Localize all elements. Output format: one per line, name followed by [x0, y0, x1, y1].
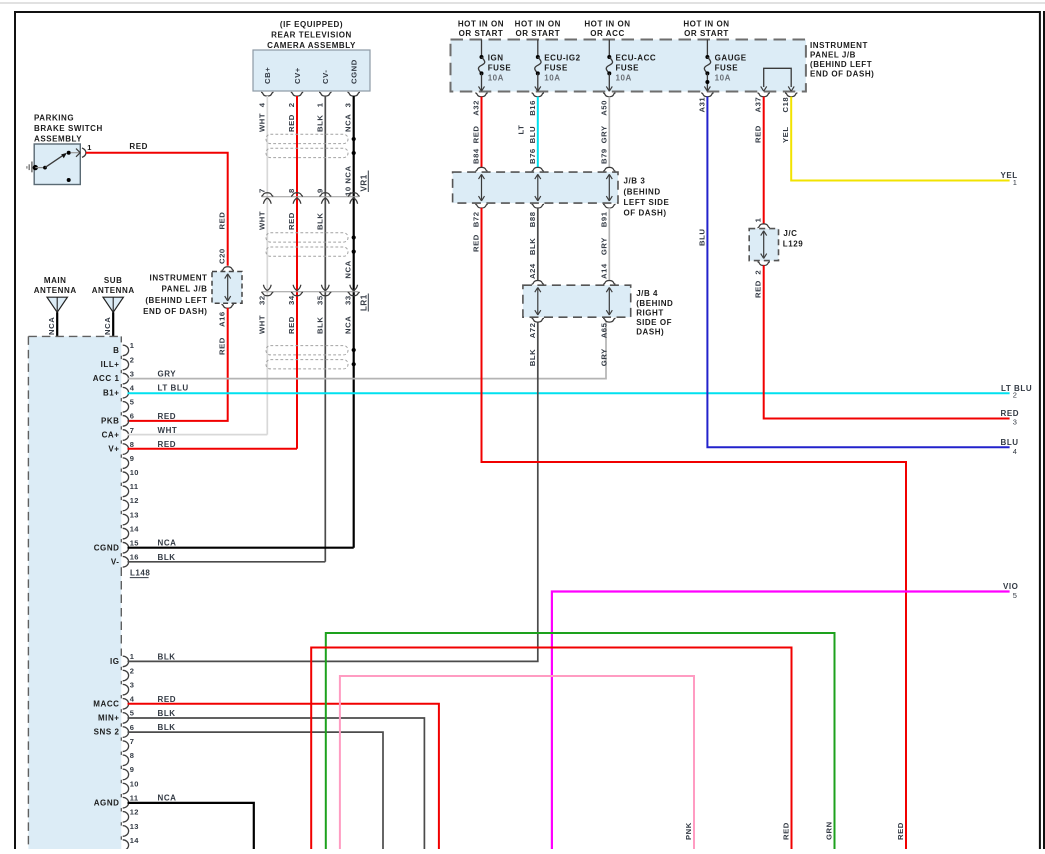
svg-text:HOT IN ON: HOT IN ON — [515, 19, 561, 28]
svg-text:ANTENNA: ANTENNA — [34, 286, 77, 295]
svg-text:A14: A14 — [599, 263, 608, 279]
svg-text:GAUGE: GAUGE — [715, 53, 747, 62]
label 35 — [315, 295, 324, 305]
svg-text:4: 4 — [130, 383, 135, 392]
svg-text:CA+: CA+ — [102, 431, 120, 440]
svg-text:BLK: BLK — [315, 213, 324, 230]
shield tap dots 1 — [352, 137, 356, 155]
svg-text:A37: A37 — [754, 97, 763, 113]
svg-text:RED: RED — [218, 337, 227, 355]
svg-text:OR START: OR START — [459, 29, 504, 38]
fuse GAUGE — [704, 40, 710, 92]
svg-text:CV+: CV+ — [293, 67, 302, 84]
svg-text:WHT: WHT — [257, 211, 266, 230]
label C20 — [218, 248, 227, 264]
label A50 — [599, 100, 608, 116]
label BLU a31 — [697, 229, 706, 246]
label seg3 wht — [257, 315, 266, 334]
wire label GRY pin 3 — [158, 370, 177, 379]
svg-text:3: 3 — [130, 369, 134, 378]
svg-text:12: 12 — [130, 808, 139, 817]
svg-text:SUB: SUB — [104, 276, 123, 285]
label net YEL — [1001, 171, 1018, 180]
pin label IG — [110, 657, 120, 666]
svg-text:3: 3 — [1013, 418, 1018, 427]
svg-text:BRAKE SWITCH: BRAKE SWITCH — [34, 124, 103, 133]
svg-text:A24: A24 — [528, 263, 537, 279]
svg-text:SIDE OF: SIDE OF — [636, 318, 672, 327]
ground chassis symbol — [27, 162, 32, 173]
svg-text:35: 35 — [315, 295, 324, 305]
wire BLK camera CV- — [324, 96, 326, 562]
label A16 — [218, 311, 227, 327]
svg-text:1: 1 — [315, 102, 324, 107]
wire main antenna NCA — [56, 312, 58, 337]
svg-text:VIO: VIO — [1003, 582, 1018, 591]
pin label CA+ — [102, 431, 120, 440]
label A24 — [528, 263, 537, 279]
svg-text:A50: A50 — [599, 100, 608, 116]
svg-text:SNS 2: SNS 2 — [94, 728, 120, 737]
svg-text:MACC: MACC — [93, 699, 119, 708]
svg-text:RED: RED — [754, 280, 763, 298]
svg-text:10: 10 — [130, 468, 139, 477]
svg-text:V+: V+ — [108, 445, 119, 454]
svg-text:RED: RED — [472, 126, 481, 144]
label pin 1 parking — [87, 143, 92, 152]
shield oval pair 2 — [266, 233, 348, 256]
svg-text:11: 11 — [130, 482, 139, 491]
svg-text:BLK: BLK — [315, 115, 324, 132]
svg-text:8: 8 — [130, 751, 134, 760]
label 9 — [315, 188, 324, 193]
svg-text:14: 14 — [130, 524, 139, 533]
svg-text:6: 6 — [130, 412, 134, 421]
pin label MIN+ — [98, 714, 120, 723]
wire GRN loop — [326, 633, 835, 849]
label seg2 blk — [315, 213, 324, 230]
svg-text:PKB: PKB — [101, 416, 120, 425]
wire MACC RED — [128, 704, 439, 849]
radio connector edge segments — [120, 345, 122, 850]
svg-text:GRN: GRN — [825, 821, 834, 840]
svg-text:1: 1 — [130, 341, 134, 350]
svg-text:ASSEMBLY: ASSEMBLY — [34, 134, 82, 143]
svg-text:3: 3 — [344, 102, 353, 107]
label main antenna — [34, 276, 77, 295]
label 32 — [257, 295, 266, 305]
svg-text:B84: B84 — [472, 148, 481, 164]
wire label NCA pin 15 — [158, 539, 177, 548]
svg-text:BLK: BLK — [158, 553, 176, 562]
svg-text:WHT: WHT — [158, 426, 178, 435]
svg-text:FUSE: FUSE — [616, 64, 640, 73]
label GRY b91 — [599, 237, 608, 255]
label parking brake switch assembly — [34, 113, 103, 143]
svg-text:DASH): DASH) — [636, 328, 664, 337]
svg-text:2: 2 — [287, 102, 296, 107]
junction block 4 arrows — [535, 287, 613, 315]
shield oval pair 3 — [266, 346, 348, 369]
label GRN bottom — [825, 821, 834, 840]
svg-text:PANEL J/B: PANEL J/B — [810, 51, 856, 60]
svg-text:HOT IN ON: HOT IN ON — [683, 19, 729, 28]
connector A16 cup — [222, 304, 234, 308]
label RED bottom right — [896, 822, 905, 840]
svg-text:V-: V- — [111, 557, 120, 566]
wire ECU-ACC GRY to J/B3 — [608, 97, 610, 167]
svg-text:RED: RED — [158, 695, 177, 704]
label hot in on 537.8 — [515, 19, 561, 37]
label 1 j/c — [754, 217, 763, 222]
label sub antenna — [92, 276, 135, 295]
label seg2 red — [287, 212, 296, 230]
svg-text:CV-: CV- — [321, 70, 330, 84]
svg-text:B76: B76 — [528, 148, 537, 164]
svg-text:PANEL J/B: PANEL J/B — [162, 285, 208, 294]
svg-text:C18: C18 — [781, 97, 790, 113]
junction connector J/C L129 box — [749, 229, 778, 261]
svg-text:B91: B91 — [599, 211, 608, 227]
label net RED — [1001, 409, 1020, 418]
svg-text:3: 3 — [130, 680, 134, 689]
svg-text:FUSE: FUSE — [488, 64, 512, 73]
label L148 — [130, 569, 151, 578]
svg-text:2: 2 — [130, 666, 134, 675]
label B91 — [599, 211, 608, 227]
label A31 — [697, 97, 706, 113]
svg-text:12: 12 — [130, 496, 139, 505]
svg-text:OR START: OR START — [515, 29, 560, 38]
label RED a32 — [472, 126, 481, 144]
label RED b72 — [472, 234, 481, 252]
label GRY a50 — [599, 125, 608, 143]
instrument panel J/B C20 box — [212, 272, 242, 304]
svg-text:AGND: AGND — [94, 798, 120, 807]
switch inner link — [35, 167, 45, 169]
svg-text:8: 8 — [130, 440, 134, 449]
net number 2 — [1013, 390, 1018, 399]
svg-text:11: 11 — [130, 794, 139, 803]
shield oval pair 1 — [266, 134, 348, 157]
svg-text:16: 16 — [130, 553, 139, 562]
parking brake switch S1 box — [34, 144, 80, 185]
svg-text:J/C: J/C — [783, 229, 797, 238]
wire B91 GRY to J/B4 — [608, 208, 610, 281]
svg-text:GRY: GRY — [599, 348, 608, 366]
wire label BLK lower pin 5 — [158, 709, 176, 718]
wire label RED pin 6 — [158, 412, 177, 421]
svg-text:7: 7 — [257, 188, 266, 193]
pin CV+ — [293, 67, 302, 84]
wire MIN+ BLK — [128, 718, 425, 849]
svg-text:CGND: CGND — [350, 59, 359, 84]
svg-text:RED: RED — [287, 316, 296, 334]
svg-text:ECU-ACC: ECU-ACC — [616, 53, 657, 62]
label VR1 — [360, 171, 369, 193]
label 7 — [257, 188, 266, 193]
label BLK a72 — [528, 349, 537, 366]
svg-text:NCA: NCA — [158, 794, 177, 803]
svg-text:OF DASH): OF DASH) — [624, 209, 667, 218]
label RED below A16 — [218, 337, 227, 355]
svg-text:(BEHIND LEFT: (BEHIND LEFT — [810, 60, 872, 69]
junction connector J/C cap — [758, 224, 770, 228]
label A32 — [472, 100, 481, 116]
label B16 — [528, 100, 537, 116]
wire A16 RED to PKB — [128, 308, 228, 421]
svg-text:14: 14 — [130, 836, 139, 845]
svg-text:RED: RED — [218, 212, 227, 230]
svg-text:PNK: PNK — [684, 822, 693, 840]
switch pin 1 connector — [76, 148, 86, 157]
label J/C L129 — [783, 229, 803, 249]
svg-text:(BEHIND LEFT: (BEHIND LEFT — [145, 296, 207, 305]
label A72 — [528, 323, 537, 339]
label 2 j/c — [754, 270, 763, 275]
fuse ECU-IG2 — [535, 40, 541, 92]
svg-text:1: 1 — [754, 217, 763, 222]
wire IGN RED to J/B3 — [481, 97, 483, 167]
junction connector J/C cup — [758, 262, 770, 266]
svg-text:C20: C20 — [218, 248, 227, 264]
svg-text:A72: A72 — [528, 323, 537, 339]
label 33 — [344, 295, 353, 305]
label 34 — [287, 295, 296, 305]
svg-text:GRY: GRY — [158, 370, 177, 379]
label A14 — [599, 263, 608, 279]
svg-text:L148: L148 — [130, 569, 150, 578]
svg-text:10A: 10A — [715, 74, 731, 83]
svg-text:LR1: LR1 — [360, 294, 369, 311]
svg-text:8: 8 — [287, 188, 296, 193]
svg-text:13: 13 — [130, 510, 139, 519]
svg-text:HOT IN ON: HOT IN ON — [584, 19, 630, 28]
wire VIO net5 — [552, 592, 1010, 850]
label hot in on 607.5 — [584, 19, 630, 37]
net number 1 — [1013, 178, 1018, 187]
label J/B 4 — [636, 289, 673, 336]
fuse box exit cups — [475, 93, 797, 97]
svg-text:RED: RED — [472, 234, 481, 252]
shield tap dots 3 — [352, 348, 356, 366]
svg-text:B1+: B1+ — [103, 388, 120, 397]
label B88 — [528, 211, 537, 227]
shield tap dots 2 — [352, 235, 356, 253]
svg-text:HOT IN ON: HOT IN ON — [458, 19, 504, 28]
label GRY a65 — [599, 348, 608, 366]
junction block J/B3 box — [453, 172, 618, 203]
wire A37 RED to J/C — [763, 97, 765, 224]
label A37 — [754, 97, 763, 113]
label red 2 — [287, 102, 296, 132]
svg-text:10 NCA: 10 NCA — [344, 165, 353, 196]
pin label ACC 1 — [93, 374, 120, 383]
label ECU-IG2 FUSE 10A — [544, 53, 580, 82]
wire parking brake RED — [86, 153, 228, 266]
svg-text:NCA: NCA — [158, 539, 177, 548]
svg-text:RED: RED — [287, 212, 296, 230]
wire label BLK pin 16 — [158, 553, 176, 562]
wire AGND NCA — [128, 803, 254, 849]
connector LR1 junctions — [261, 285, 359, 296]
svg-text:BLK: BLK — [528, 349, 537, 366]
pin label B1+ — [103, 388, 120, 397]
svg-text:RED: RED — [158, 412, 177, 421]
label nca 3 — [344, 102, 353, 132]
label J/B 3 — [624, 176, 670, 217]
junction block 3 arrows — [479, 174, 613, 201]
svg-text:B16: B16 — [528, 100, 537, 116]
wire ECU-IG2 LT BLU to J/B3 — [537, 97, 539, 167]
label wht 4 — [257, 102, 266, 132]
svg-text:NCA: NCA — [344, 316, 353, 334]
switch contact dot open — [67, 178, 71, 182]
svg-text:1: 1 — [1013, 178, 1018, 187]
label RED a37 — [754, 125, 763, 143]
svg-text:(BEHIND: (BEHIND — [636, 299, 673, 308]
wire SNS2 BLK — [128, 732, 384, 849]
wire PNK loop — [340, 676, 694, 849]
wire label RED lower pin 4 — [158, 695, 177, 704]
second page frame edge — [1044, 12, 1045, 849]
wire label BLK lower pin 6 — [158, 723, 176, 732]
label B72 — [472, 211, 481, 227]
svg-text:VR1: VR1 — [360, 174, 369, 191]
junction block J/B4 box — [523, 285, 631, 317]
svg-text:NCA: NCA — [103, 317, 112, 335]
svg-text:BLK: BLK — [315, 317, 324, 334]
wire label WHT pin 7 — [158, 426, 178, 435]
label nca sub — [103, 317, 112, 335]
svg-text:NCA: NCA — [344, 114, 353, 132]
label blk 1 — [315, 102, 324, 132]
svg-text:RIGHT: RIGHT — [636, 308, 664, 317]
svg-text:NCA: NCA — [344, 260, 353, 278]
sub antenna symbol — [103, 297, 123, 312]
radio unit box dashed border — [28, 336, 121, 849]
svg-text:RED: RED — [782, 822, 791, 840]
switch pivot dot — [43, 166, 47, 170]
label C18 — [781, 97, 790, 113]
svg-text:FUSE: FUSE — [715, 64, 739, 73]
svg-text:MIN+: MIN+ — [98, 714, 120, 723]
switch contact dot closed — [67, 151, 71, 155]
svg-text:RED: RED — [896, 822, 905, 840]
pin label PKB — [101, 416, 120, 425]
net number 4 — [1013, 447, 1018, 456]
svg-text:END OF DASH): END OF DASH) — [810, 70, 874, 79]
wire CA+ WHT — [128, 434, 268, 436]
svg-text:CAMERA ASSEMBLY: CAMERA ASSEMBLY — [267, 41, 356, 50]
svg-text:IGN: IGN — [488, 53, 504, 62]
upper pin numbers 1-16 — [130, 341, 139, 561]
wire RED camera CV+ — [296, 96, 298, 449]
label A65 — [599, 322, 608, 338]
wire CGND NCA — [128, 547, 354, 549]
svg-text:GRY: GRY — [599, 125, 608, 143]
wire label BLK lower pin 1 — [158, 652, 176, 661]
svg-text:NCA: NCA — [47, 317, 56, 335]
svg-text:10A: 10A — [544, 74, 560, 83]
svg-text:33: 33 — [344, 295, 353, 305]
radio lower connector pin arcs — [123, 656, 129, 850]
radio unit box fill — [28, 336, 121, 849]
svg-text:RED: RED — [129, 142, 148, 151]
wire RED loop — [311, 648, 791, 850]
svg-text:MAIN: MAIN — [44, 276, 67, 285]
junction block 4 exit cups — [532, 318, 616, 322]
pin label ILL+ — [101, 360, 120, 369]
svg-text:10A: 10A — [488, 74, 504, 83]
pin label V+ — [108, 445, 119, 454]
svg-text:7: 7 — [130, 737, 134, 746]
pin label B — [113, 346, 119, 355]
switch common pole dot — [33, 165, 38, 170]
label seg3 nca — [344, 316, 353, 334]
wire B1+ LT BLU net2 — [128, 392, 1010, 394]
switch contact link — [71, 152, 80, 154]
wire C18 YEL net1 — [791, 97, 1009, 181]
svg-text:CGND: CGND — [94, 543, 120, 552]
pin CV- — [321, 70, 330, 84]
svg-text:WHT: WHT — [257, 113, 266, 132]
svg-text:END OF DASH): END OF DASH) — [143, 307, 207, 316]
wire V+ RED — [128, 448, 298, 450]
pin label CGND — [94, 543, 120, 552]
jb internal loop A37-C18 — [761, 68, 795, 91]
junction block 3 entry caps — [475, 167, 615, 171]
label PNK bottom — [684, 822, 693, 840]
label BLK b88 — [528, 238, 537, 255]
svg-text:A32: A32 — [472, 100, 481, 116]
junction connector J/C arrow — [761, 231, 767, 259]
svg-text:9: 9 — [315, 188, 324, 193]
label instrument panel j/b left — [143, 273, 207, 316]
wire GAUGE BLU net4 — [707, 97, 1009, 448]
svg-text:GRY: GRY — [599, 237, 608, 255]
svg-text:INSTRUMENT: INSTRUMENT — [150, 273, 208, 282]
main antenna symbol — [47, 297, 67, 312]
svg-text:REAR TELEVISION: REAR TELEVISION — [271, 31, 352, 40]
label B79 — [599, 148, 608, 164]
pin CB+ — [263, 67, 272, 84]
junction block 4 entry caps — [532, 281, 616, 285]
wire B72 RED net — [482, 208, 907, 849]
instrument panel J/B fuse box — [451, 40, 806, 92]
svg-text:PARKING: PARKING — [34, 113, 74, 122]
label RED bottom — [782, 822, 791, 840]
label nca main — [47, 317, 56, 335]
svg-text:15: 15 — [130, 539, 139, 548]
svg-text:OR ACC: OR ACC — [590, 29, 625, 38]
svg-text:J/B 3: J/B 3 — [624, 176, 646, 185]
svg-text:CB+: CB+ — [263, 67, 272, 84]
connector VR1 link line — [262, 196, 359, 198]
camera connector cups — [261, 92, 360, 96]
svg-text:1: 1 — [87, 143, 92, 152]
wire label NCA lower pin 11 — [158, 794, 177, 803]
svg-text:ILL+: ILL+ — [101, 360, 120, 369]
wire B88 BLK to J/B4 — [537, 208, 539, 281]
svg-text:34: 34 — [287, 295, 296, 305]
svg-text:BLK: BLK — [528, 238, 537, 255]
svg-text:2: 2 — [1013, 390, 1018, 399]
svg-text:(IF EQUIPPED): (IF EQUIPPED) — [280, 20, 343, 29]
pin label AGND — [94, 798, 120, 807]
connector LR1 link line — [262, 291, 359, 293]
svg-text:B79: B79 — [599, 148, 608, 164]
